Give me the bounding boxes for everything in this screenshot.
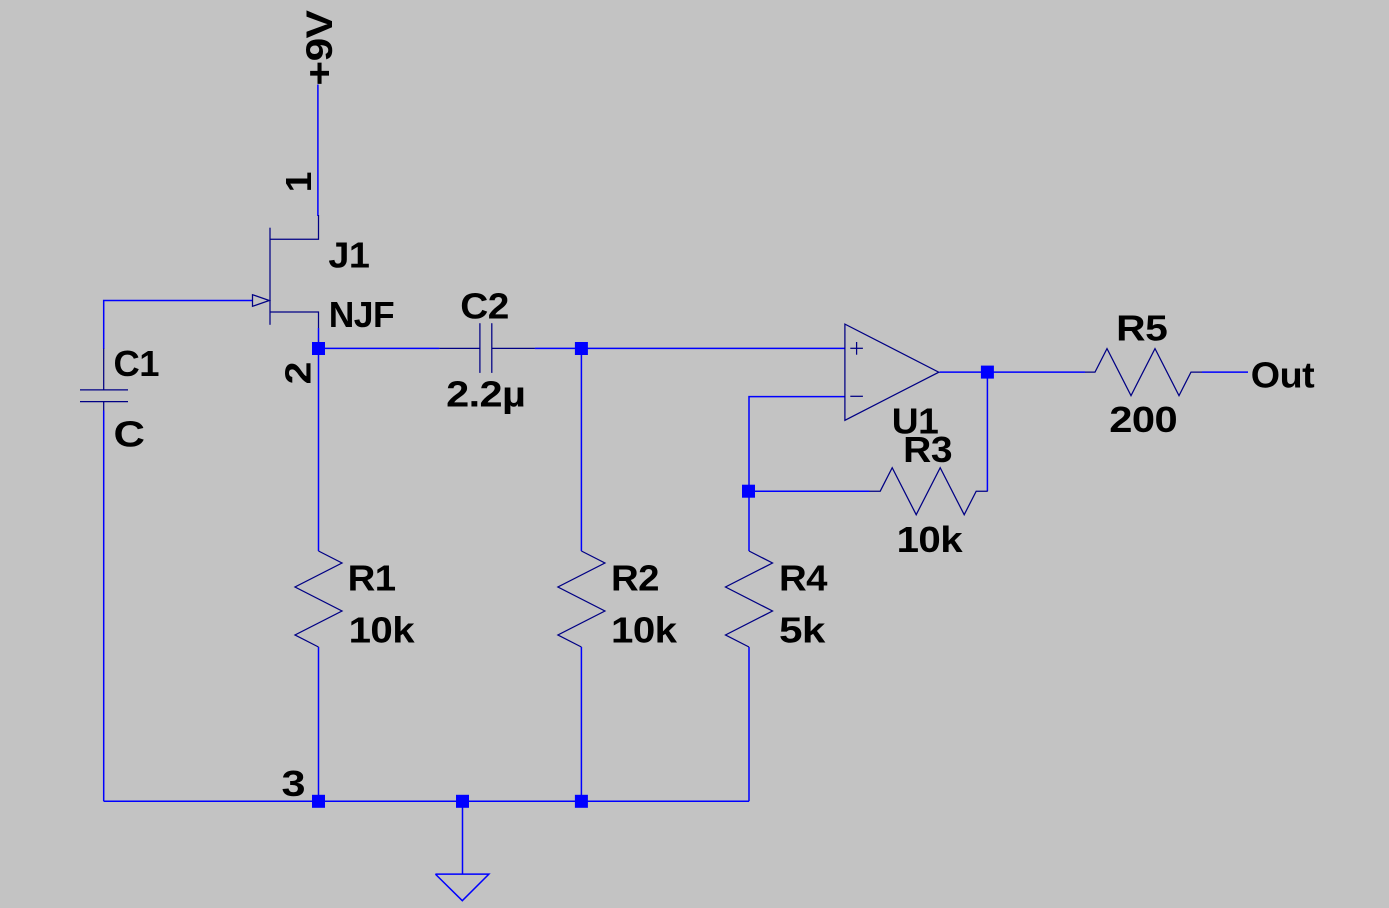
svg-text:1: 1 (278, 172, 318, 192)
svg-text:3: 3 (282, 765, 305, 805)
svg-text:R5: R5 (1116, 307, 1168, 348)
svg-text:2: 2 (279, 362, 319, 384)
svg-text:R3: R3 (903, 429, 952, 470)
svg-text:R4: R4 (779, 558, 827, 599)
svg-text:R1: R1 (348, 558, 396, 599)
svg-text:200: 200 (1109, 399, 1177, 440)
svg-text:R2: R2 (611, 558, 659, 599)
svg-text:NJF: NJF (329, 294, 395, 335)
svg-text:C: C (114, 415, 145, 455)
svg-text:10k: 10k (611, 610, 678, 651)
svg-text:10k: 10k (897, 519, 964, 560)
svg-text:2.2µ: 2.2µ (446, 373, 525, 414)
svg-text:C1: C1 (114, 343, 160, 384)
svg-text:J1: J1 (328, 234, 369, 275)
svg-text:10k: 10k (349, 610, 416, 651)
svg-text:Out: Out (1251, 355, 1315, 396)
svg-text:5k: 5k (779, 610, 827, 651)
svg-text:C2: C2 (460, 285, 509, 326)
svg-text:+9V: +9V (298, 10, 340, 86)
